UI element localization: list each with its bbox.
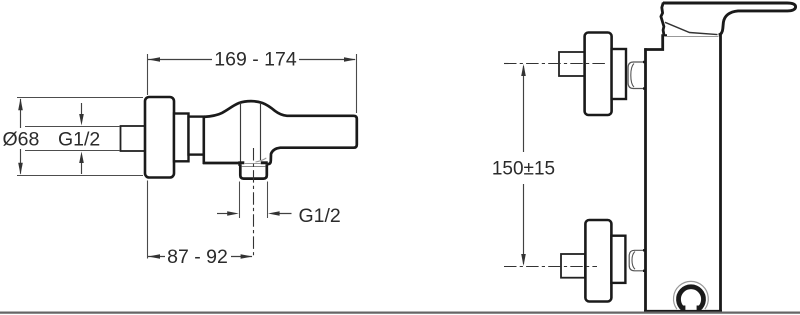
body top step — [644, 36, 667, 50]
upper wall stub — [559, 52, 585, 76]
upper flange — [585, 33, 612, 116]
inlet stub G1/2 (wall side) — [121, 126, 146, 151]
wire: long extension line bottom-left (87-92) — [147, 181, 149, 259]
wire: extension line top-right (169-174 right) — [356, 54, 358, 113]
svg-text:169 - 174: 169 - 174 — [214, 49, 297, 71]
gray seam between tabs — [244, 163, 261, 165]
upper ring — [612, 49, 626, 99]
dimension 150+-15 line segments — [523, 66, 525, 152]
outlet nut G1/2 — [240, 164, 266, 178]
junction tick upper nipple top — [643, 61, 647, 63]
svg-text:G1/2: G1/2 — [58, 129, 100, 151]
dimension 169-174 line left segment — [148, 59, 212, 61]
G1/2 dimension arrow bottom (points up) — [81, 159, 83, 174]
arrow left of 169-174 — [148, 57, 160, 62]
lower ring — [611, 236, 625, 283]
wall flange escutcheon — [145, 97, 174, 178]
svg-text:G1/2: G1/2 — [299, 205, 341, 227]
dashed centerline upper union — [504, 63, 606, 65]
cartridge silhouette line right — [260, 103, 262, 160]
G1/2 dimension arrow top (points down) — [81, 103, 83, 118]
ring collar behind flange — [174, 114, 189, 162]
wire: O68 extension line top — [17, 97, 143, 99]
hose hook C-ring (bold) — [679, 287, 704, 309]
cartridge silhouette line left — [240, 103, 242, 162]
lever left tip edge — [661, 3, 664, 35]
washer line in nut — [242, 166, 266, 168]
arrow O68 bottom — [18, 163, 23, 175]
dimension 87-92 line right segment — [231, 256, 252, 258]
lower wall stub — [561, 254, 585, 278]
arrow 150 bottom — [521, 254, 526, 266]
junction tick upper nipple bottom — [643, 87, 647, 89]
svg-text:150±15: 150±15 — [492, 159, 555, 180]
junction tick lower nipple bottom — [643, 270, 647, 272]
lever handle bar — [663, 3, 796, 35]
svg-text:Ø68: Ø68 — [3, 129, 40, 151]
wire: O68 extension line bottom — [17, 175, 143, 177]
dimension 169-174 line right segment — [299, 59, 355, 61]
outlet nut tab right — [261, 161, 268, 166]
dashed centerline lower union — [504, 266, 597, 268]
baseline ground line — [0, 312, 800, 314]
neck ring — [189, 117, 204, 155]
arrow 87-92 right — [241, 254, 253, 259]
body column left edge — [644, 48, 647, 311]
body bottom edge — [644, 310, 722, 313]
upper nipple cap arc — [631, 64, 634, 88]
body left edge — [203, 116, 206, 164]
junction tick lower nipple top — [643, 249, 647, 251]
O68 dimension vertical segments — [20, 99, 22, 128]
wire: G1/2 extension line bottom — [25, 150, 120, 152]
outlet nut tab left — [238, 161, 244, 166]
wire: G1/2 extension line top — [25, 126, 120, 128]
arrow 150 top — [521, 64, 526, 76]
wire: extension line top-left (169-174 left) — [147, 54, 149, 95]
dimension 87-92 line left segment — [148, 256, 165, 258]
arrow right of 169-174 — [344, 57, 356, 62]
upper nipple (thin) — [628, 62, 646, 89]
hose hook outer circle (thin) — [674, 281, 709, 309]
lower nipple cap arc — [632, 252, 635, 270]
lower flange — [585, 220, 611, 302]
wire: extension line from nut left — [239, 182, 241, 219]
valve body with dome hump and spout outline — [204, 101, 357, 164]
svg-text:87 - 92: 87 - 92 — [167, 246, 228, 268]
dashed centerline of outlet — [253, 148, 255, 259]
hose hook left foot — [681, 306, 685, 312]
lower nipple (thin) — [629, 250, 646, 270]
lever underside diagonal — [665, 22, 718, 34]
body top face line (thin) — [664, 36, 719, 38]
hose hook right foot — [697, 306, 701, 312]
G1/2 bottom dimension left arrow — [217, 213, 231, 215]
body bottom edge — [203, 162, 240, 165]
G1/2 bottom dimension right arrow — [275, 213, 292, 215]
arrow O68 top — [18, 98, 23, 110]
body column right edge — [719, 34, 722, 312]
wire: extension line from nut right — [267, 182, 269, 219]
fillet shadow curve under body — [256, 158, 267, 162]
arrow 87-92 left — [148, 254, 160, 259]
